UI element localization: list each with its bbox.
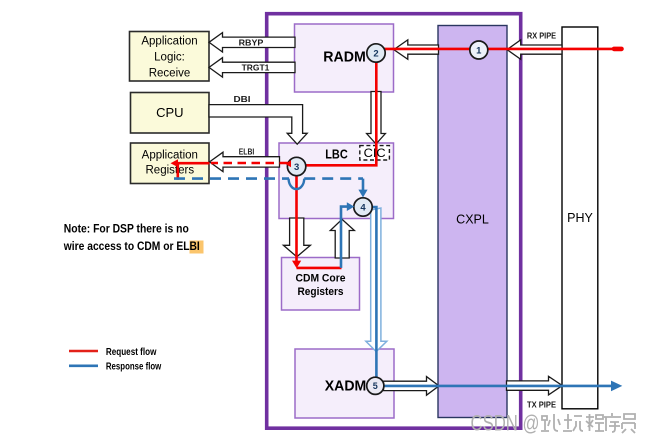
svg-text:CPU: CPU bbox=[156, 105, 183, 120]
svg-text:TX PIPE: TX PIPE bbox=[527, 400, 556, 410]
note highlight bbox=[190, 241, 204, 254]
red request wire: RX PIPE line (PHY to RADM node 2) bbox=[378, 48, 614, 51]
LBC box bbox=[279, 143, 394, 219]
red wire: vertical drop to response start bbox=[177, 163, 180, 180]
svg-text:Registers: Registers bbox=[146, 165, 195, 177]
CIC box bbox=[360, 146, 390, 160]
node 3 bbox=[287, 157, 305, 175]
blue response wire: elbow down to node 4 bbox=[362, 179, 365, 191]
blue response hop over red wire bbox=[289, 179, 305, 190]
hollow arrow ELBI (LBC to Application Registers) bbox=[210, 152, 280, 171]
watermark CJK glyph sketches bbox=[541, 413, 635, 433]
glyph tiao bbox=[541, 414, 560, 431]
red request arrowhead inside Application Registers bbox=[171, 159, 179, 167]
svg-text:LBC: LBC bbox=[325, 147, 348, 162]
node 4 bbox=[354, 198, 372, 216]
red request arrowhead into CDM bbox=[292, 261, 301, 269]
svg-text:Registers: Registers bbox=[298, 286, 344, 298]
CDM Core Registers box bbox=[282, 258, 360, 311]
hollow arrow TRGT1 (RADM to Application Logic) bbox=[209, 58, 295, 77]
hollow arrow TX PIPE (CXPL to PHY, right) bbox=[507, 376, 563, 395]
CPU box bbox=[131, 93, 210, 134]
node 2 bbox=[367, 44, 385, 62]
red request arrowhead at left of node 3 bbox=[285, 160, 291, 167]
svg-text:CSDN @: CSDN @ bbox=[471, 411, 540, 436]
hollow arrow CDM to LBC (vertical up) bbox=[330, 219, 354, 258]
hollow arrow CXPL to RADM (left) bbox=[394, 40, 439, 59]
svg-text:Response flow: Response flow bbox=[106, 362, 162, 373]
svg-text:wire access to CDM or ELBI: wire access to CDM or ELBI bbox=[63, 241, 200, 253]
RADM box bbox=[295, 24, 394, 92]
blue response arrowhead into node 4 from left bbox=[347, 202, 355, 211]
svg-text:Receive: Receive bbox=[149, 67, 191, 79]
hollow arrow LBC to CDM (vertical down) bbox=[283, 218, 310, 257]
hollow arrow XADM to CXPL (right) bbox=[384, 377, 440, 396]
svg-text:CDM Core: CDM Core bbox=[296, 273, 346, 285]
hollow arrow DBI (CPU to LBC, elbow) bbox=[209, 105, 307, 145]
svg-text:2: 2 bbox=[373, 49, 378, 60]
glyph cheng bbox=[586, 414, 604, 431]
node 5 bbox=[367, 377, 384, 394]
red request wire: thick end cap at right bbox=[614, 47, 622, 52]
svg-text:Application: Application bbox=[141, 36, 197, 48]
blue response wire: node 5 to TX PIPE out bbox=[376, 385, 613, 388]
svg-text:1: 1 bbox=[476, 46, 482, 57]
svg-text:3: 3 bbox=[294, 162, 299, 173]
glyph xu bbox=[604, 413, 621, 432]
blue response arrowhead TX out bbox=[611, 381, 622, 392]
svg-text:RX PIPE: RX PIPE bbox=[527, 31, 557, 41]
blue response dashed wire: below Application Registers to LBC bbox=[174, 177, 289, 180]
svg-text:RBYP: RBYP bbox=[239, 37, 264, 47]
red request wire: node2 down to CIC then left to node3 bbox=[297, 49, 377, 165]
svg-text:RADM: RADM bbox=[323, 50, 366, 66]
outer container box bbox=[267, 14, 521, 429]
svg-text:DBI: DBI bbox=[234, 94, 251, 104]
glyph keng bbox=[563, 414, 583, 431]
red request wire: node3 down to CDM bbox=[295, 167, 298, 262]
svg-text:TRGT1: TRGT1 bbox=[242, 62, 270, 72]
Application Registers box bbox=[131, 143, 210, 184]
blue response arrowhead into node 4 bbox=[358, 190, 367, 198]
Application Logic: Receive box bbox=[130, 32, 210, 82]
XADM box bbox=[295, 349, 394, 418]
red request wire: CDM horizontal to blue riser bbox=[297, 267, 342, 270]
svg-text:Application: Application bbox=[142, 150, 198, 162]
hollow arrow RX PIPE (PHY to CXPL, left) bbox=[507, 40, 562, 59]
svg-text:Note: For DSP there is no: Note: For DSP there is no bbox=[64, 224, 189, 236]
red request dashed wire: node3 to Application Registers (ELBI) bbox=[211, 162, 288, 165]
svg-text:XADM: XADM bbox=[325, 379, 367, 395]
blue response wire: riser from CDM up into LBC bbox=[341, 207, 347, 268]
PHY box bbox=[562, 27, 598, 409]
glyph yuan bbox=[622, 414, 635, 433]
svg-text:PHY: PHY bbox=[567, 211, 593, 225]
red request wire inside Application Registers bbox=[175, 162, 210, 165]
svg-text:Request flow: Request flow bbox=[106, 347, 157, 358]
svg-text:4: 4 bbox=[360, 203, 366, 214]
svg-text:5: 5 bbox=[373, 381, 378, 391]
blue response dashed wire: hop to elbow bbox=[304, 177, 363, 180]
hollow blue arrow node4 to XADM (vertical, outlined light blue) bbox=[366, 208, 387, 352]
blue response wire: node 4 down to node 5 bbox=[370, 207, 376, 386]
svg-text:CXPL: CXPL bbox=[456, 213, 489, 227]
hollow arrow RADM to LBC (vertical) bbox=[367, 92, 386, 145]
node 1 bbox=[470, 41, 488, 59]
svg-text:CIC: CIC bbox=[364, 148, 386, 160]
CXPL box bbox=[438, 26, 507, 418]
legend response flow sample line bbox=[69, 364, 98, 367]
svg-text:ELBI: ELBI bbox=[239, 146, 255, 156]
legend request flow sample line bbox=[69, 350, 98, 353]
hollow arrow RBYP (RADM to Application Logic) bbox=[209, 33, 295, 52]
svg-text:Logic:: Logic: bbox=[154, 52, 185, 64]
